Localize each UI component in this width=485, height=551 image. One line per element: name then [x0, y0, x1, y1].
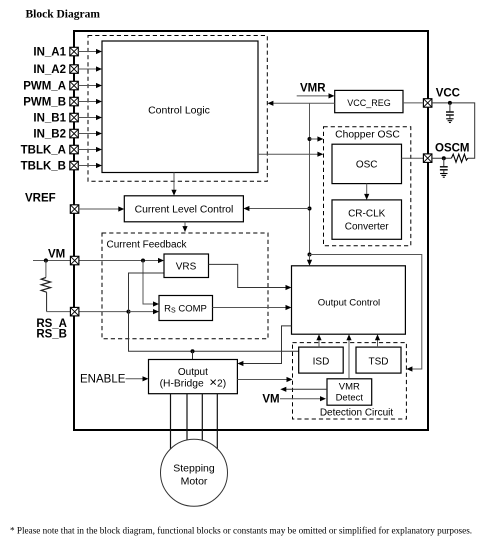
wire RS to Rs COMP	[129, 309, 160, 314]
detection circuit dashed boundary	[293, 343, 407, 419]
svg-text:Current Level Control: Current Level Control	[135, 205, 234, 216]
current feedback dashed boundary	[102, 233, 268, 339]
svg-text:Block Diagram: Block Diagram	[26, 9, 101, 21]
svg-text:Current Feedback: Current Feedback	[107, 240, 188, 251]
block VMR Detect	[327, 379, 372, 405]
stepping motor	[161, 439, 228, 506]
resistor at OSCM	[451, 154, 467, 162]
svg-text:IN_B2: IN_B2	[33, 129, 66, 141]
pin PWM_A	[23, 81, 78, 93]
wire OSC to CR-CLK	[364, 184, 369, 200]
block Output (H-Bridge x2)	[149, 360, 238, 394]
block Output Control	[292, 266, 406, 334]
pin IN_A1	[33, 47, 78, 59]
wire motor line 4	[216, 394, 218, 449]
wire Output to Detection Circuit	[237, 377, 292, 382]
svg-text:VMR: VMR	[300, 83, 326, 95]
svg-text:Output Control: Output Control	[318, 298, 380, 309]
svg-text:TBLK_B: TBLK_B	[21, 161, 66, 173]
svg-text:Output: Output	[178, 367, 208, 378]
pin VREF	[70, 205, 79, 214]
svg-text:OSC: OSC	[356, 160, 378, 171]
wire OSC to OSCM pin	[402, 157, 424, 159]
svg-text:VM: VM	[48, 248, 65, 260]
wire Output Control to Output block	[237, 326, 291, 366]
wire ENABLE to Output	[126, 376, 149, 381]
wire trunk to Chopper OSC	[310, 136, 324, 141]
wire VMR trunk vertical	[309, 103, 311, 254]
svg-text:Motor: Motor	[181, 475, 208, 487]
wire VM net	[33, 260, 159, 262]
wire VCC_REG to VCC pin	[403, 102, 423, 104]
block OSC	[332, 144, 402, 183]
wire trunk to Detection Circuit (right path)	[310, 255, 422, 372]
wire motor line 1	[170, 394, 172, 449]
wire PWM_B to Control Logic	[78, 99, 102, 104]
wire IN_A1 to Control Logic	[78, 49, 102, 54]
wire IN_A2 to Control Logic	[78, 66, 102, 71]
wire PWM_A to Control Logic	[78, 83, 102, 88]
svg-text:Detect: Detect	[336, 393, 364, 404]
wire TBLK_B to Control Logic	[78, 163, 102, 168]
svg-text:Converter: Converter	[345, 222, 390, 233]
wire Rs COMP to Output Control	[213, 305, 292, 310]
svg-text:VCC: VCC	[436, 88, 460, 100]
block ISD	[299, 347, 344, 373]
pin IN_B1	[33, 113, 78, 125]
wire VMR Detect to Output Control	[346, 334, 351, 379]
pin IN_A2	[33, 64, 78, 76]
wire trunk to Current Level Control (arrow left)	[243, 206, 309, 211]
svg-text:PWM_A: PWM_A	[23, 81, 66, 93]
wire VM to VMR Detect	[280, 396, 326, 401]
chopper OSC dashed boundary	[324, 127, 411, 246]
svg-text:TBLK_A: TBLK_A	[21, 145, 66, 157]
wire VMR to VCC_REG	[297, 93, 335, 98]
wire motor line 2	[186, 394, 188, 440]
svg-text:ENABLE: ENABLE	[80, 374, 126, 386]
svg-text:RS_B: RS_B	[36, 329, 67, 341]
svg-text:TSD: TSD	[369, 356, 389, 367]
svg-text:VMR: VMR	[339, 382, 360, 393]
capacitor at OSCM	[440, 158, 448, 173]
block Current Level Control	[124, 196, 243, 222]
wire Control Logic to Chopper OSC	[258, 152, 323, 157]
pin TBLK_A	[21, 145, 79, 157]
block Control Logic	[102, 41, 258, 173]
svg-text:* Please note that in the bloc: * Please note that in the block diagram,…	[10, 526, 472, 536]
svg-text:OSCM: OSCM	[435, 143, 470, 155]
wire trunk to Output Control top	[307, 255, 312, 266]
svg-text:IN_B1: IN_B1	[33, 113, 66, 125]
svg-text:ISD: ISD	[313, 356, 330, 367]
wire IN_B1 to Control Logic	[78, 115, 102, 120]
capacitor at VCC	[446, 103, 454, 119]
wire RS net	[47, 311, 129, 313]
wire VM to Rs COMP	[143, 261, 159, 307]
svg-text:VRS: VRS	[176, 262, 197, 273]
block CR-CLK Converter	[332, 200, 402, 239]
pin OSCM	[423, 154, 432, 163]
node trunk-CLC junction	[308, 207, 312, 211]
wire Control Logic to Current Level Control	[171, 173, 176, 196]
svg-text:RS COMP: RS COMP	[164, 304, 207, 315]
node OSCM cap junction	[442, 156, 446, 160]
svg-text:Chopper OSC: Chopper OSC	[335, 130, 400, 141]
pin PWM_B	[23, 97, 78, 109]
wire TBLK_A to Control Logic	[78, 147, 102, 152]
node VM-RsCOMP junction	[141, 259, 145, 263]
wire ISD to Output Control	[316, 334, 321, 347]
ground at VCC cap	[446, 119, 453, 123]
svg-text:Stepping: Stepping	[173, 462, 215, 474]
wire VCC_REG to Control Logic (arrow left)	[267, 101, 334, 106]
pin TBLK_B	[21, 161, 79, 173]
node VCC cap junction	[448, 101, 452, 105]
svg-text:Detection Circuit: Detection Circuit	[320, 408, 394, 419]
node RS junction	[127, 310, 131, 314]
wire VRS to Output Control	[209, 264, 292, 290]
block VCC_REG	[335, 90, 403, 112]
svg-text:PWM_B: PWM_B	[23, 97, 66, 109]
node trunk bottom junction	[308, 253, 312, 257]
svg-text:Control Logic: Control Logic	[148, 105, 210, 117]
svg-text:CR-CLK: CR-CLK	[348, 209, 386, 220]
svg-text:IN_A2: IN_A2	[33, 64, 66, 76]
block TSD	[356, 347, 401, 373]
svg-text:VREF: VREF	[25, 193, 56, 205]
node trunk-chopper junction	[308, 137, 312, 141]
resistor RS external	[41, 261, 50, 312]
pin RS_A/RS_B	[70, 307, 79, 316]
wire junction to Output block	[192, 351, 194, 359]
control logic dashed boundary	[88, 36, 267, 182]
node VM-resistor junction	[44, 258, 48, 262]
wire OSCM pin to resistor	[432, 157, 452, 159]
arrow VM into VRS	[158, 258, 164, 263]
wire VMR Detect output (arrow left)	[280, 387, 327, 392]
wire motor line 3	[201, 394, 203, 441]
ground at OSCM cap	[440, 174, 447, 178]
wire IN_B2 to Control Logic	[78, 131, 102, 136]
wire TSD to Output Control	[375, 334, 380, 347]
svg-text:VCC_REG: VCC_REG	[347, 98, 391, 108]
wire VCC external net	[432, 103, 475, 158]
wire RS down to ISD row	[129, 312, 299, 352]
pin VM	[70, 256, 79, 265]
node ISD-row to Output junction	[191, 349, 195, 353]
IC boundary box	[74, 31, 428, 430]
wire Current Level Control to Current Feedback	[182, 222, 187, 232]
pin IN_B2	[33, 129, 78, 141]
wire RS to VRS	[129, 273, 165, 312]
block Rs COMP	[159, 296, 213, 321]
wire VREF to Current Level Control	[79, 206, 125, 211]
block VRS	[164, 254, 209, 278]
svg-text:VM: VM	[262, 394, 279, 406]
svg-text:IN_A1: IN_A1	[33, 47, 66, 59]
pin VCC	[423, 99, 432, 108]
